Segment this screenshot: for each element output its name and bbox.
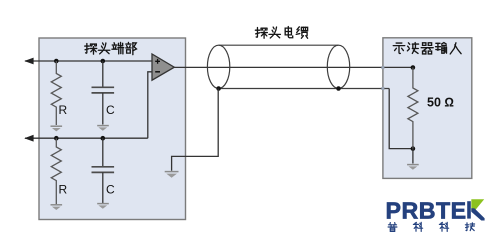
wire: top input wire to + input	[25, 60, 152, 62]
node A (top wire / R1)	[54, 59, 59, 64]
logo 普科科技	[388, 222, 475, 231]
logo K green wedge	[471, 199, 484, 211]
resistor R3 50 ohm	[408, 68, 418, 149]
cable cylinder top line	[219, 44, 339, 46]
ground (cable shield, in probe box)	[165, 172, 179, 178]
cable cylinder bottom line / shield	[219, 88, 390, 90]
oscilloscope input box	[383, 38, 472, 179]
cable left ellipse	[207, 45, 229, 88]
svg-text:C: C	[106, 103, 115, 117]
wire: left shield drop to ground	[172, 89, 219, 171]
svg-text:R: R	[59, 103, 68, 117]
logo K blue leg	[471, 208, 484, 220]
arrow left lower	[24, 135, 33, 142]
resistor R1	[51, 61, 61, 125]
svg-text:C: C	[106, 183, 115, 197]
ground under C1	[97, 126, 109, 131]
connection square (shield at scope box edge)	[381, 87, 384, 90]
label 示波器输入 (oscilloscope input title)	[393, 43, 461, 54]
wire: feedback riser to - input	[148, 72, 152, 138]
resistor R2	[51, 138, 61, 204]
node C (lower wire / R2)	[54, 136, 59, 141]
logo K vertical bar	[467, 201, 471, 218]
cable right ellipse	[327, 45, 349, 88]
node H (scope resistor bottom)	[411, 146, 416, 151]
wire: lower input wire	[25, 137, 148, 139]
node E (left ellipse shield tap)	[216, 86, 221, 91]
node F (right ellipse shield tap)	[336, 86, 341, 91]
probe head box	[39, 38, 186, 220]
arrow left top	[24, 58, 33, 65]
ground (scope)	[407, 165, 419, 170]
connection square (signal at scope box edge)	[381, 66, 384, 69]
ground under R1	[51, 126, 63, 131]
ground under R2	[51, 205, 63, 210]
capacitor C1	[92, 61, 115, 125]
svg-text:R: R	[59, 183, 68, 197]
wire: op-amp output / signal line through cable	[174, 66, 413, 68]
op-amp U1	[152, 54, 174, 80]
wire: scope ground lead	[412, 149, 414, 164]
label 探头端部 (probe head title)	[85, 42, 137, 54]
svg-text:50 Ω: 50 Ω	[427, 96, 454, 110]
node G (scope resistor top)	[411, 65, 416, 70]
label 探头电缆 (probe cable title)	[255, 27, 307, 39]
node B (top wire / C1)	[101, 59, 106, 64]
svg-text:PRBTE: PRBTE	[386, 198, 467, 224]
node D (lower wire / C2)	[101, 136, 106, 141]
capacitor C2	[92, 138, 115, 203]
wire: right shield into scope box	[389, 89, 413, 149]
ground under C2	[97, 204, 109, 209]
